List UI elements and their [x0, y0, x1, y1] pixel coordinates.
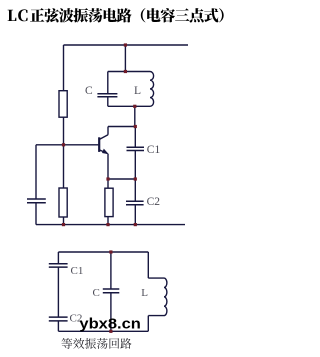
svg-text:C1: C1 — [147, 144, 161, 156]
svg-text:C: C — [93, 287, 100, 299]
svg-text:L: L — [134, 85, 141, 97]
svg-text:L: L — [141, 287, 148, 299]
svg-text:C2: C2 — [147, 196, 161, 208]
svg-text:C: C — [85, 85, 93, 97]
svg-text:ybx8.cn: ybx8.cn — [79, 316, 140, 333]
svg-text:C1: C1 — [71, 265, 84, 277]
